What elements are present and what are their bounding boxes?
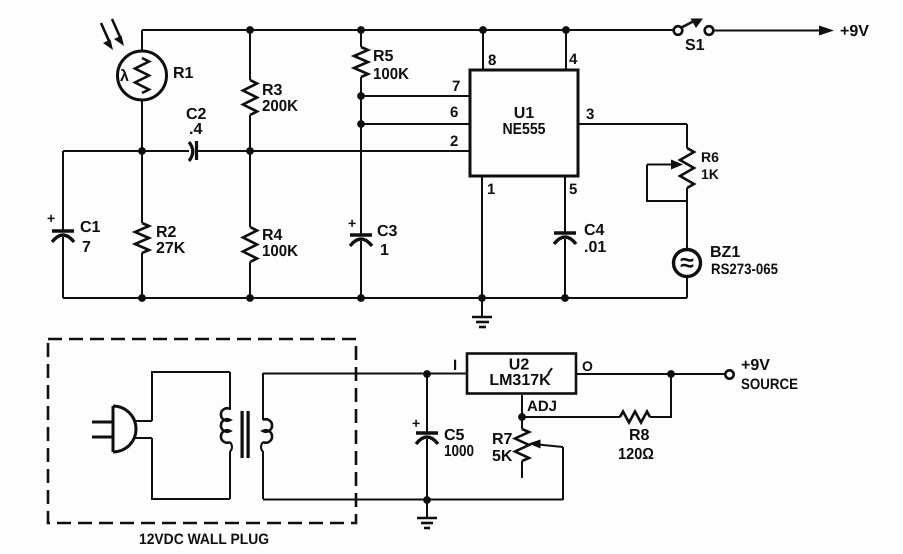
svg-text:1000: 1000 — [444, 443, 474, 460]
svg-text:LM317K: LM317K — [489, 372, 551, 389]
pin 1 wire — [481, 176, 483, 298]
junction R5 column pin 6 — [357, 120, 365, 128]
svg-text:RS273-065: RS273-065 — [711, 261, 778, 278]
junction supply rail at C5 — [423, 370, 431, 378]
regulator U2 LM317K — [467, 354, 576, 394]
capacitor C4 — [554, 233, 576, 298]
junction bottom at C5 / ground — [423, 496, 431, 504]
svg-text:+: + — [47, 210, 55, 226]
wire middle rail left of C2 — [63, 150, 189, 152]
wire R8 to output junction — [650, 374, 671, 417]
wire bottom rail of alarm circuit — [63, 297, 687, 299]
junction top rail at R5 — [357, 26, 365, 34]
svg-text:+9V: +9V — [840, 23, 869, 40]
wire secondary top to U2 input — [263, 373, 467, 375]
wire top +9V rail left segment — [142, 29, 674, 31]
wire R6 to buzzer — [686, 202, 688, 250]
junction bottom rail at R2 — [138, 294, 146, 302]
svg-text:5K: 5K — [492, 448, 513, 465]
wire ADJ to R8 — [522, 416, 620, 418]
wire ADJ pin — [521, 395, 523, 417]
svg-text:R8: R8 — [629, 427, 650, 444]
dashed wall plug box — [48, 339, 356, 523]
svg-text:U1: U1 — [514, 105, 535, 122]
wire primary loop top — [152, 372, 230, 421]
wire middle rail right of C2 to pin 2 — [198, 150, 471, 152]
junction bottom rail at C4 — [561, 294, 569, 302]
resistor R4 — [243, 151, 257, 298]
capacitor C3 — [350, 235, 372, 298]
AC plug — [92, 406, 152, 452]
ground (supply) — [417, 500, 437, 528]
wire pin6 from R5 junction — [361, 123, 470, 125]
svg-text:I: I — [453, 357, 457, 374]
junction R5 column pin 7 — [357, 92, 365, 100]
stray mark — [548, 368, 552, 374]
svg-text:R7: R7 — [492, 431, 513, 448]
svg-text:8: 8 — [488, 52, 496, 69]
transformer core — [241, 411, 244, 458]
wire U2 output — [577, 373, 725, 375]
potentiometer R6 — [647, 124, 694, 202]
svg-text:1K: 1K — [701, 166, 719, 182]
svg-text:U2: U2 — [509, 357, 530, 374]
svg-text:+9V: +9V — [741, 357, 770, 374]
svg-text:120Ω: 120Ω — [618, 446, 654, 463]
svg-text:2: 2 — [450, 133, 458, 150]
svg-text:ADJ: ADJ — [527, 398, 557, 415]
svg-text:C3: C3 — [377, 223, 398, 240]
transformer secondary coil — [261, 373, 272, 499]
junction middle rail at R2 — [138, 147, 146, 155]
buzzer BZ1 — [674, 249, 701, 298]
switch S1 — [674, 19, 714, 35]
svg-text:4: 4 — [569, 51, 578, 68]
svg-text:R4: R4 — [262, 227, 283, 244]
svg-text:+: + — [412, 415, 420, 431]
wire R5 column down to C3 — [360, 96, 362, 234]
svg-text:R1: R1 — [173, 65, 194, 82]
svg-text:R5: R5 — [373, 48, 394, 65]
svg-text:C1: C1 — [80, 219, 101, 236]
svg-text:NE555: NE555 — [503, 121, 546, 138]
svg-text:7: 7 — [82, 239, 91, 256]
svg-text:R3: R3 — [262, 82, 283, 99]
transformer T1 primary coil — [221, 372, 232, 499]
svg-text:6: 6 — [450, 104, 458, 121]
svg-text:S1: S1 — [685, 37, 705, 54]
svg-text:R6: R6 — [701, 149, 719, 165]
svg-text:1: 1 — [380, 242, 389, 259]
svg-text:.4: .4 — [189, 121, 202, 138]
capacitor C5 — [416, 374, 438, 500]
photoresistor R1 — [118, 30, 167, 151]
potentiometer R7 — [515, 417, 563, 500]
light arrow 1 — [101, 23, 113, 50]
junction middle rail at R4 — [246, 147, 254, 155]
pin 5 wire — [564, 176, 566, 232]
svg-text:O: O — [582, 358, 593, 374]
svg-text:R2: R2 — [156, 224, 177, 241]
capacitor C1 — [52, 151, 74, 298]
pin 3 wire — [578, 123, 687, 125]
svg-text:7: 7 — [452, 78, 460, 95]
svg-text:C4: C4 — [584, 222, 605, 239]
svg-text:100K: 100K — [262, 243, 298, 260]
wire primary loop bottom — [152, 438, 230, 499]
light arrow 2 — [112, 19, 124, 46]
pin 4 wire — [565, 30, 567, 70]
wire secondary bottom rail — [263, 499, 563, 501]
junction top rail at pin 8 — [479, 26, 487, 34]
wire pin7 from R5 junction — [361, 95, 470, 97]
junction bottom rail at R4 — [246, 294, 254, 302]
ground (alarm) — [472, 298, 492, 327]
junction output at R8 — [667, 370, 675, 378]
svg-text:λ: λ — [120, 68, 129, 85]
svg-text:≈: ≈ — [680, 249, 694, 277]
terminal +9V SOURCE — [725, 370, 733, 378]
pin 8 wire — [482, 30, 484, 70]
junction top rail at R3 — [246, 26, 254, 34]
svg-text:1: 1 — [487, 181, 495, 198]
resistor R3 — [243, 30, 257, 151]
junction top rail at pin 4 — [562, 26, 570, 34]
svg-text:SOURCE: SOURCE — [741, 376, 798, 393]
resistor R2 — [135, 151, 149, 298]
svg-text:27K: 27K — [156, 240, 186, 257]
resistor R5 — [354, 30, 368, 96]
capacitor C2 — [189, 141, 197, 161]
wire top rail right segment to +9V arrow — [714, 30, 825, 32]
svg-text:3: 3 — [586, 106, 594, 123]
resistor R8 — [620, 412, 650, 423]
junction bottom rail at pin 1 / ground — [478, 294, 486, 302]
svg-text:100K: 100K — [373, 66, 409, 83]
svg-text:200K: 200K — [262, 98, 298, 115]
svg-text:C5: C5 — [444, 427, 465, 444]
junction bottom rail at C3 — [357, 294, 365, 302]
svg-text:5: 5 — [569, 181, 577, 198]
junction ADJ node — [518, 413, 526, 421]
svg-text:BZ1: BZ1 — [710, 244, 740, 261]
svg-text:12VDC WALL PLUG: 12VDC WALL PLUG — [139, 531, 269, 548]
svg-text:.01: .01 — [584, 239, 606, 256]
svg-text:+: + — [348, 215, 356, 231]
op IC U1 NE555 — [470, 70, 578, 176]
